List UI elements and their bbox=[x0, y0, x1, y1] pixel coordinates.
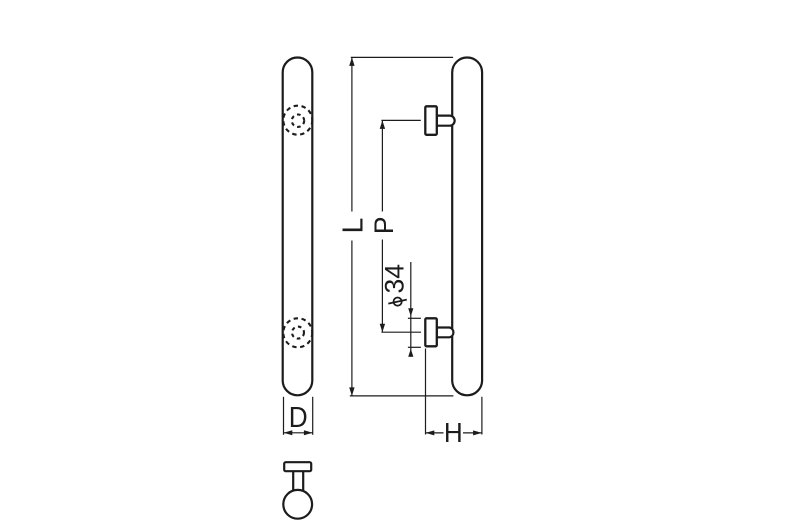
top mounting hole dashed inner circle bbox=[292, 115, 304, 127]
H dimension extension line right bbox=[481, 397, 483, 435]
knob detail stem bbox=[293, 465, 303, 493]
D dimension extension line right bbox=[312, 397, 314, 435]
phi34 arrow pointing down bbox=[408, 308, 413, 316]
H dimension arrow left bbox=[426, 430, 435, 435]
H dimension arrow right bbox=[473, 430, 482, 435]
svg-text:L: L bbox=[338, 218, 370, 234]
L dimension top reference line bbox=[351, 56, 453, 58]
svg-text:34: 34 bbox=[379, 264, 409, 293]
top mounting hole dashed outer circle bbox=[283, 106, 312, 135]
handle front view outline bbox=[283, 58, 313, 396]
phi34 arrow pointing up bbox=[408, 349, 413, 357]
svg-text:D: D bbox=[289, 401, 308, 433]
bottom mounting hole dashed outer circle bbox=[283, 318, 312, 347]
phi34 top tick bbox=[408, 317, 421, 319]
P dimension arrow bottom bbox=[380, 324, 385, 333]
phi diameter symbol circle bbox=[394, 298, 402, 306]
phi34 bottom tick bbox=[408, 346, 421, 348]
svg-text:H: H bbox=[444, 417, 463, 448]
bottom post flange bbox=[425, 318, 437, 346]
H dimension line right segment bbox=[463, 432, 482, 434]
L dimension bottom reference line bbox=[350, 395, 454, 397]
P dimension arrow top bbox=[380, 120, 385, 128]
L dimension arrow bottom bbox=[349, 387, 354, 396]
P dimension line upper segment bbox=[381, 120, 383, 211]
H dimension extension line left bbox=[425, 349, 427, 435]
D dimension line bbox=[284, 432, 313, 434]
L dimension line lower segment bbox=[351, 241, 353, 396]
L dimension arrow top bbox=[349, 57, 354, 66]
phi diameter symbol slash bbox=[388, 300, 407, 304]
handle side view outline bbox=[452, 58, 482, 396]
top post flange bbox=[425, 106, 437, 135]
H dimension line left segment bbox=[426, 432, 444, 434]
bottom mounting hole dashed inner circle bbox=[292, 327, 304, 339]
P dimension top reference line bbox=[381, 119, 420, 121]
P dimension bottom reference line bbox=[381, 331, 421, 333]
D dimension extension line left bbox=[283, 397, 285, 435]
L dimension line upper segment bbox=[351, 57, 353, 211]
svg-text:P: P bbox=[369, 216, 399, 234]
P dimension line lower segment bbox=[381, 240, 383, 333]
knob detail ball bbox=[283, 490, 312, 519]
top post stem bbox=[437, 116, 455, 126]
bottom post stem bbox=[437, 328, 454, 338]
phi34 dimension line bbox=[410, 262, 412, 357]
D dimension arrow right bbox=[304, 430, 313, 435]
D dimension arrow left bbox=[284, 430, 293, 435]
knob detail cap bbox=[284, 462, 311, 471]
